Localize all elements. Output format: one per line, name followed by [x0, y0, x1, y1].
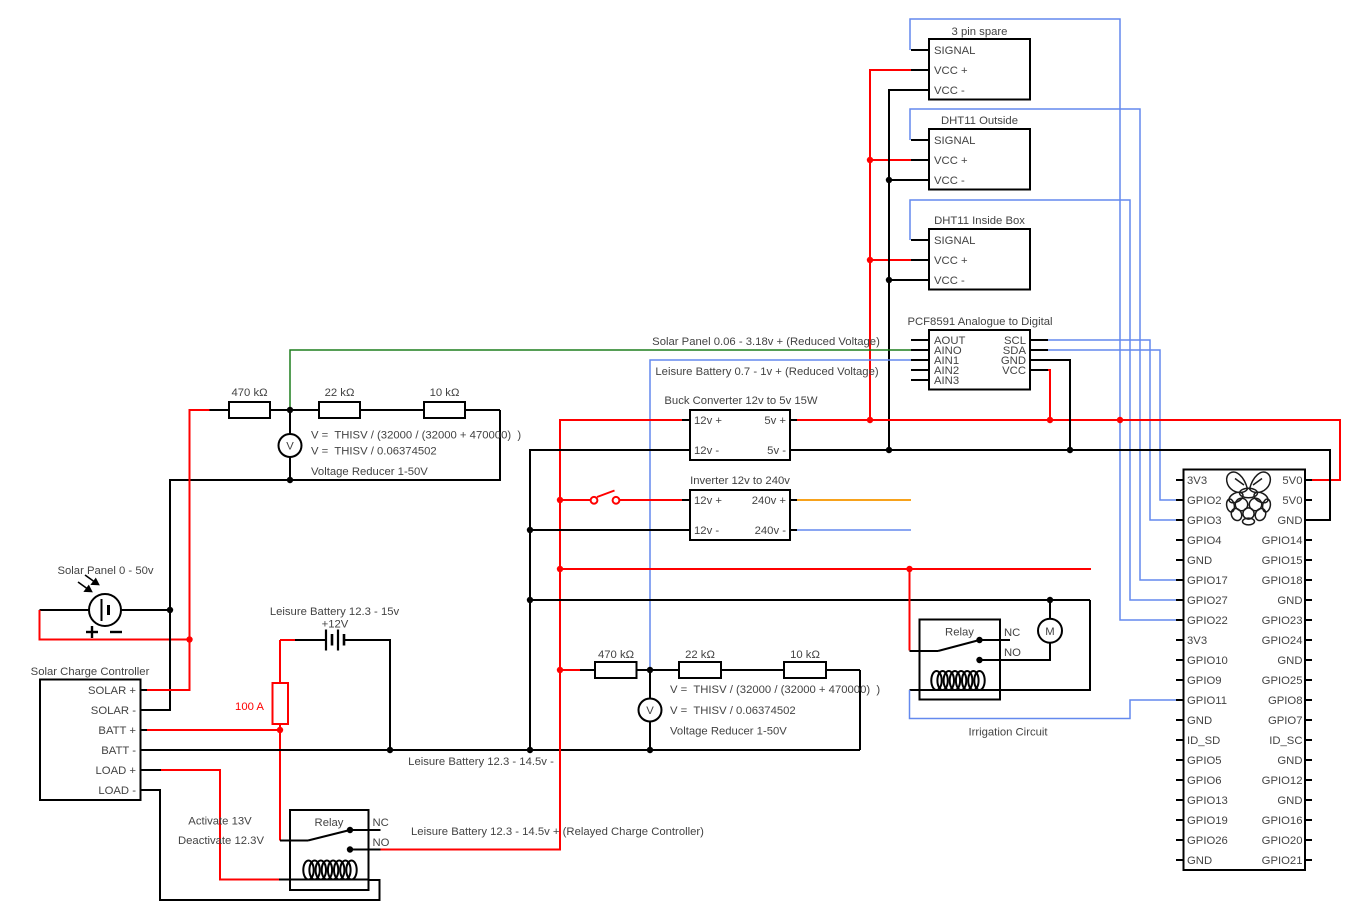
wire black solar panel - vertical to SOLAR- and voltage reducer: [147, 410, 500, 710]
svg-text:GPIO13: GPIO13: [1187, 795, 1228, 807]
wire red irrigation relay common feed: [909, 569, 911, 651]
svg-text:GND: GND: [1277, 595, 1302, 607]
solar charge controller: [40, 680, 141, 801]
svg-text:12v +: 12v +: [694, 415, 722, 427]
svg-text:BATT -: BATT -: [101, 745, 136, 757]
ADC U1 PCF8591 Analogue to Digital: [929, 330, 1030, 390]
svg-text:240v -: 240v -: [755, 525, 787, 537]
svg-text:12v -: 12v -: [694, 525, 719, 537]
pin GPIO23 (right 8) of Raspberry Pi: [1305, 619, 1312, 621]
svg-text:V: V: [286, 440, 294, 452]
relay K2 irrigation relay box: [920, 620, 1001, 700]
junction red 5v rail at sensor rail: [867, 417, 873, 423]
svg-text:22 kΩ: 22 kΩ: [685, 649, 715, 661]
svg-text:5v -: 5v -: [767, 445, 786, 457]
svg-text:VCC +: VCC +: [934, 65, 968, 77]
svg-text:Solar Panel 0.06 - 3.18v + (Re: Solar Panel 0.06 - 3.18v + (Reduced Volt…: [652, 336, 880, 348]
svg-text:GPIO23: GPIO23: [1262, 615, 1303, 627]
svg-text:Inverter 12v to 240v: Inverter 12v to 240v: [690, 475, 790, 487]
wire black LOAD+ lead: [147, 769, 161, 771]
junction black GND rail at PCF GND: [1067, 447, 1073, 453]
svg-text:GPIO16: GPIO16: [1262, 815, 1303, 827]
svg-text:GPIO20: GPIO20: [1262, 835, 1303, 847]
relay K1 NC contact: [347, 827, 353, 833]
wire blue Leisure Battery reduced voltage to AIN1: [650, 360, 911, 670]
pin 12v+ of inverter: [682, 499, 690, 501]
junction red VCC+ DHT11 Outside: [867, 157, 873, 163]
pin 5V0 (right 2) of Raspberry Pi: [1305, 499, 1312, 501]
junction black VCC- DHT11 Inside: [886, 277, 892, 283]
relay K2 coil: [931, 671, 941, 690]
svg-text:470 kΩ: 470 kΩ: [231, 387, 267, 399]
wire red fuse junction down to charge relay common: [279, 730, 281, 841]
wire red 5v+ rail to Pi 5V0: [797, 420, 1340, 480]
relay K1 NO contact: [347, 846, 353, 852]
wire blue PCF8591 SCL to GPIO3: [1048, 340, 1176, 520]
svg-text:GND: GND: [1277, 515, 1302, 527]
junction black reducer 2 ground at BATT- rail: [647, 747, 653, 753]
pin VCC- of DHT11 Inside Box: [911, 279, 929, 281]
pin ID_SD (left 14) of Raspberry Pi: [1176, 739, 1184, 741]
svg-text:DHT11 Outside: DHT11 Outside: [941, 115, 1018, 127]
buck converter 12v to 5v: [690, 410, 790, 460]
voltmeter V1: [279, 434, 302, 457]
svg-text:22 kΩ: 22 kΩ: [325, 387, 355, 399]
svg-text:V = THISV / 0.06374502: V = THISV / 0.06374502: [670, 705, 796, 717]
pin 12v- of inverter: [682, 529, 690, 531]
wire black irrigation relay arm stub: [910, 650, 939, 652]
svg-text:Leisure Battery 12.3 - 15v: Leisure Battery 12.3 - 15v: [270, 606, 400, 618]
pin GPIO22 (left 8) of Raspberry Pi: [1176, 619, 1184, 621]
pin GND of PCF8591: [1030, 359, 1048, 361]
svg-text:5v +: 5v +: [764, 415, 786, 427]
pin VCC+ of DHT11 Inside Box: [911, 259, 929, 261]
svg-text:240v +: 240v +: [752, 495, 787, 507]
svg-text:GND: GND: [1187, 715, 1212, 727]
wire red BATT+ to fuse junction: [147, 729, 280, 731]
svg-text:BATT +: BATT +: [98, 725, 136, 737]
junction red relayed rail at reducer 2 tap: [557, 667, 563, 673]
svg-text:GPIO22: GPIO22: [1187, 615, 1228, 627]
wire black voltage reducer 1 resistor chain: [210, 409, 230, 411]
svg-text:GPIO7: GPIO7: [1268, 715, 1303, 727]
wire black irrigation relay NO to motor: [980, 643, 1051, 660]
connector 3 pin spare: [929, 39, 1030, 100]
pin SOLAR - of solar charge controller: [141, 709, 148, 711]
junction black reducer 2 divider tap: [647, 667, 653, 673]
svg-text:VCC +: VCC +: [934, 155, 968, 167]
Raspberry Pi GPIO header U2: [1184, 470, 1306, 871]
pin GPIO25 (right 11) of Raspberry Pi: [1305, 679, 1312, 681]
pin GPIO11 (left 12) of Raspberry Pi: [1176, 699, 1184, 701]
svg-text:+12V: +12V: [322, 618, 349, 630]
wire red rail to irrigation relay: [560, 568, 1091, 570]
pin 12v- of buck converter: [682, 449, 690, 451]
sensor DHT11 Inside Box: [929, 229, 1030, 290]
pin GPIO26 (left 19) of Raspberry Pi: [1176, 839, 1184, 841]
junction black inverter return: [527, 527, 533, 533]
junction red irrigation relay feed: [906, 566, 912, 572]
svg-text:SIGNAL: SIGNAL: [934, 45, 975, 57]
wire black relay K1 coil baseline: [279, 879, 369, 881]
junction red 5v rail at blue crossing: [1117, 417, 1123, 423]
pin VCC- of DHT11 Outside: [911, 179, 929, 181]
svg-text:SOLAR +: SOLAR +: [88, 685, 136, 697]
junction red solar panel positive: [186, 636, 192, 642]
svg-text:ID_SD: ID_SD: [1187, 735, 1220, 747]
wire red VCC+ stub to DHT11 Inside Box: [870, 259, 911, 261]
svg-text:GND: GND: [1277, 755, 1302, 767]
solar panel polarity marks: [86, 626, 122, 638]
junction red VCC+ DHT11 Inside: [867, 257, 873, 263]
svg-text:GPIO18: GPIO18: [1262, 575, 1303, 587]
relay K1 arm: [308, 830, 350, 841]
svg-text:Leisure Battery 12.3 - 14.5v -: Leisure Battery 12.3 - 14.5v -: [408, 756, 554, 768]
svg-text:470 kΩ: 470 kΩ: [598, 649, 634, 661]
pin GPIO14 (right 4) of Raspberry Pi: [1305, 539, 1312, 541]
junction black reducer 1 divider tap: [287, 407, 293, 413]
wire blue PCF8591 SDA to GPIO2: [1048, 350, 1176, 500]
junction black irrigation NO contact: [976, 657, 982, 663]
wire red LOAD+ to relay coil: [161, 770, 279, 880]
wire red reducer 2 input stub: [560, 669, 580, 671]
svg-text:3V3: 3V3: [1187, 475, 1207, 487]
wire red leisure battery + to fuse: [280, 639, 295, 641]
svg-text:GND: GND: [1277, 655, 1302, 667]
wire black 5v- GND rail to Pi GND: [797, 450, 1330, 520]
pin GPIO20 (right 19) of Raspberry Pi: [1305, 839, 1312, 841]
pin 5V0 (right 1) of Raspberry Pi: [1305, 479, 1312, 481]
pin GND (right 7) of Raspberry Pi: [1305, 599, 1312, 601]
junction black VCC- DHT11 Outside: [886, 177, 892, 183]
relay K1 charge relay box: [290, 810, 369, 890]
wire black GND rail to irrigation circuit: [530, 599, 1090, 601]
switch S1 arm: [597, 491, 615, 498]
pin GPIO2 (left 2) of Raspberry Pi: [1176, 499, 1184, 501]
wire black leisure battery - lead: [344, 640, 390, 750]
svg-text:VCC -: VCC -: [934, 85, 965, 97]
sensor DHT11 Outside: [929, 129, 1030, 190]
wire red solar panel + to charge controller SOLAR+ riser: [40, 610, 190, 640]
wire black VCC- rail vertical from sensors to GND rail: [889, 90, 911, 450]
svg-text:Leisure Battery 0.7 - 1v + (Re: Leisure Battery 0.7 - 1v + (Reduced Volt…: [655, 366, 878, 378]
svg-text:V = THISV / 0.06374502: V = THISV / 0.06374502: [311, 445, 437, 457]
switch S1 right contact: [613, 497, 620, 504]
svg-text:SIGNAL: SIGNAL: [934, 135, 975, 147]
wire red switch S1 to inverter 12v+: [620, 499, 682, 501]
wire black buck converter 12v- return: [530, 450, 682, 750]
svg-text:SIGNAL: SIGNAL: [934, 235, 975, 247]
wire red Leisure Battery + relayed rail (NO to buck converter): [381, 420, 683, 850]
pin GND (right 10) of Raspberry Pi: [1305, 659, 1312, 661]
wire orange inverter 240v+ output: [797, 499, 911, 501]
svg-text:PCF8591 Analogue to Digital: PCF8591 Analogue to Digital: [907, 316, 1052, 328]
junction red relayed rail at horizontal rail: [557, 566, 563, 572]
junction red BATT+ fuse: [277, 727, 283, 733]
fuse F1 100 A: [273, 683, 289, 724]
pin SIGNAL of DHT11 Outside: [911, 139, 929, 141]
resistor R5 22 kOhm: [679, 662, 721, 678]
svg-text:GND: GND: [1187, 555, 1212, 567]
wire black LOAD- to relay coil return: [147, 790, 380, 900]
pin GND (left 20) of Raspberry Pi: [1176, 859, 1184, 861]
wire red PCF8591 VCC feed: [1048, 370, 1050, 420]
svg-text:GPIO11: GPIO11: [1187, 695, 1227, 707]
svg-text:GPIO3: GPIO3: [1187, 515, 1222, 527]
pin SCL of PCF8591: [1030, 339, 1048, 341]
pin SIGNAL of 3 pin spare: [911, 49, 929, 51]
motor M1: [1038, 619, 1062, 643]
Raspberry Pi logo: [1226, 472, 1272, 525]
wire black motor to GND rail: [1049, 600, 1051, 619]
wire red VCC+ rail vertical to sensors: [870, 70, 911, 420]
svg-text:5V0: 5V0: [1282, 475, 1302, 487]
pin LOAD + of solar charge controller: [141, 769, 148, 771]
svg-text:GPIO21: GPIO21: [1262, 855, 1303, 867]
pin GND (right 15) of Raspberry Pi: [1305, 759, 1312, 761]
wire red VCC+ stub to DHT11 Outside: [870, 159, 911, 161]
svg-text:GPIO15: GPIO15: [1262, 555, 1303, 567]
svg-text:GPIO14: GPIO14: [1262, 535, 1303, 547]
svg-text:V = THISV / (32000 / (32000 +: V = THISV / (32000 / (32000 + 470000) ): [311, 429, 521, 441]
wire black irrigation coil return loop: [910, 600, 1091, 690]
wire blue DHT11 Inside SIGNAL to GPIO27: [910, 200, 1176, 600]
pin 3V3 (left 9) of Raspberry Pi: [1176, 639, 1184, 641]
pin GPIO5 (left 15) of Raspberry Pi: [1176, 759, 1184, 761]
pin BATT + of solar charge controller: [141, 729, 148, 731]
svg-text:Leisure Battery 12.3 - 14.5v +: Leisure Battery 12.3 - 14.5v + (Relayed …: [411, 826, 704, 838]
wire black VCC- stub to DHT11 Inside Box: [889, 279, 911, 281]
pin GND (left 5) of Raspberry Pi: [1176, 559, 1184, 561]
pin VCC+ of 3 pin spare: [911, 69, 929, 71]
svg-text:Solar Charge Controller: Solar Charge Controller: [31, 666, 150, 678]
svg-text:VCC +: VCC +: [934, 255, 968, 267]
svg-text:GPIO19: GPIO19: [1187, 815, 1228, 827]
svg-text:NC: NC: [373, 817, 389, 829]
wire black VCC- stub to DHT11 Outside: [889, 179, 911, 181]
svg-text:LOAD +: LOAD +: [96, 765, 137, 777]
svg-text:NO: NO: [1004, 647, 1021, 659]
pin GPIO15 (right 5) of Raspberry Pi: [1305, 559, 1312, 561]
wire relay K1 NO stub: [350, 849, 381, 851]
wire red fuse to BATT+ junction: [279, 724, 281, 730]
pin ID_SC (right 14) of Raspberry Pi: [1305, 739, 1312, 741]
wire blue inverter 240v- output: [797, 529, 911, 531]
wire black voltmeter 1 connections: [289, 410, 291, 434]
pin GPIO6 (left 16) of Raspberry Pi: [1176, 779, 1184, 781]
svg-text:5V0: 5V0: [1282, 495, 1302, 507]
pin GND (left 13) of Raspberry Pi: [1176, 719, 1184, 721]
voltmeter V2: [639, 699, 662, 722]
wire black solar panel negative lead to junction: [121, 609, 170, 611]
svg-text:Irrigation Circuit: Irrigation Circuit: [968, 726, 1048, 738]
pin GPIO16 (right 18) of Raspberry Pi: [1305, 819, 1312, 821]
svg-text:VCC -: VCC -: [934, 175, 965, 187]
junction black solar panel negative: [167, 607, 173, 613]
svg-text:SOLAR -: SOLAR -: [91, 705, 136, 717]
junction black motor at GND rail: [1047, 597, 1053, 603]
pin VCC- of 3 pin spare: [911, 89, 929, 91]
svg-text:V = THISV / (32000 / (32000 +: V = THISV / (32000 / (32000 + 470000) ): [670, 684, 880, 696]
svg-text:NO: NO: [373, 837, 390, 849]
relay K1 coil: [303, 861, 313, 880]
svg-text:NC: NC: [1004, 627, 1020, 639]
pin 240v- of inverter: [790, 529, 797, 531]
pin AINO of PCF8591: [911, 349, 929, 351]
svg-text:Relay: Relay: [945, 626, 974, 638]
svg-text:12v -: 12v -: [694, 445, 719, 457]
svg-text:GPIO6: GPIO6: [1187, 775, 1222, 787]
svg-text:GND: GND: [1187, 855, 1212, 867]
pin GPIO3 (left 3) of Raspberry Pi: [1176, 519, 1184, 521]
pin AIN3 of PCF8591: [911, 379, 929, 381]
switch S1 left contact: [591, 497, 598, 504]
svg-text:GPIO17: GPIO17: [1187, 575, 1228, 587]
resistor R4 470 kOhm: [595, 662, 637, 678]
svg-text:GPIO4: GPIO4: [1187, 535, 1222, 547]
pin GPIO8 (right 12) of Raspberry Pi: [1305, 699, 1312, 701]
svg-text:GPIO27: GPIO27: [1187, 595, 1228, 607]
pin GPIO12 (right 16) of Raspberry Pi: [1305, 779, 1312, 781]
svg-text:Deactivate 12.3V: Deactivate 12.3V: [178, 835, 264, 847]
pin 3V3 (left 1) of Raspberry Pi: [1176, 479, 1184, 481]
pin SDA of PCF8591: [1030, 349, 1048, 351]
svg-text:100 A: 100 A: [235, 701, 264, 713]
svg-text:LOAD -: LOAD -: [98, 785, 136, 797]
wire black irrigation relay NC stub: [980, 639, 1011, 641]
pin GPIO24 (right 9) of Raspberry Pi: [1305, 639, 1312, 641]
pin 5v- of buck converter: [790, 449, 797, 451]
svg-text:Relay: Relay: [315, 817, 344, 829]
svg-text:3V3: 3V3: [1187, 635, 1207, 647]
svg-text:10 kΩ: 10 kΩ: [790, 649, 820, 661]
junction red relayed rail at switch tap: [557, 497, 563, 503]
svg-text:Solar Panel 0 - 50v: Solar Panel 0 - 50v: [57, 565, 153, 577]
pin BATT - of solar charge controller: [141, 749, 148, 751]
svg-text:AIN3: AIN3: [934, 375, 959, 387]
pin GND (right 17) of Raspberry Pi: [1305, 799, 1312, 801]
junction black battery negative at BATT- rail: [387, 747, 393, 753]
pin GPIO19 (left 18) of Raspberry Pi: [1176, 819, 1184, 821]
pin GPIO13 (left 17) of Raspberry Pi: [1176, 799, 1184, 801]
wire black solar panel positive lead: [40, 609, 90, 611]
wire blue irrigation relay coil to GPIO11: [910, 690, 1177, 719]
pin AIN1 of PCF8591: [911, 359, 929, 361]
pin GPIO17 (left 6) of Raspberry Pi: [1176, 579, 1184, 581]
pin 12v+ of buck converter: [682, 419, 690, 421]
svg-text:GPIO26: GPIO26: [1187, 835, 1228, 847]
junction red 5v rail at PCF VCC: [1047, 417, 1053, 423]
pin GPIO27 (left 7) of Raspberry Pi: [1176, 599, 1184, 601]
irrigation relay arm: [938, 640, 980, 651]
pin GPIO10 (left 10) of Raspberry Pi: [1176, 659, 1184, 661]
wire red switch S1 feed: [560, 499, 590, 501]
pin AIN2 of PCF8591: [911, 369, 929, 371]
pin SOLAR + of solar charge controller: [141, 689, 148, 691]
wire black PCF8591 GND feed: [1048, 360, 1070, 450]
junction black buck return at BATT- rail: [527, 747, 533, 753]
pin GPIO7 (right 13) of Raspberry Pi: [1305, 719, 1312, 721]
svg-text:GPIO2: GPIO2: [1187, 495, 1222, 507]
junction black irrigation NC contact: [976, 637, 982, 643]
pin SIGNAL of DHT11 Inside Box: [911, 239, 929, 241]
solar panel light arrows: [78, 575, 99, 592]
wire black reducer 2 right side down to BATT- rail: [859, 670, 861, 750]
svg-text:Voltage Reducer 1-50V: Voltage Reducer 1-50V: [670, 725, 787, 737]
wire relay K1 NC stub: [350, 829, 381, 831]
wire black BATT- rail (Leisure Battery 12.3 - 14.5v -): [147, 749, 860, 751]
pin 240v+ of inverter: [790, 499, 797, 501]
wire black voltmeter 2 connections: [649, 670, 651, 699]
svg-text:GPIO8: GPIO8: [1268, 695, 1303, 707]
svg-text:ID_SC: ID_SC: [1269, 735, 1302, 747]
junction black GND rail start: [527, 597, 533, 603]
svg-text:GPIO25: GPIO25: [1262, 675, 1303, 687]
svg-text:10 kΩ: 10 kΩ: [430, 387, 460, 399]
pin AOUT of PCF8591: [911, 339, 929, 341]
svg-text:V: V: [646, 705, 654, 717]
svg-text:M: M: [1045, 626, 1054, 638]
svg-text:GPIO24: GPIO24: [1262, 635, 1303, 647]
wire blue 3 pin spare SIGNAL to GPIO22: [910, 19, 1176, 620]
pin 5v+ of buck converter: [790, 419, 797, 421]
junction black reducer 1 ground tap: [287, 477, 293, 483]
wire red SOLAR+ riser to voltage reducer 1: [147, 410, 210, 690]
svg-text:VCC: VCC: [1002, 365, 1026, 377]
resistor R2 22 kOhm: [319, 402, 360, 418]
pin GPIO9 (left 11) of Raspberry Pi: [1176, 679, 1184, 681]
svg-text:GPIO5: GPIO5: [1187, 755, 1222, 767]
svg-text:12v +: 12v +: [694, 495, 722, 507]
svg-text:GND: GND: [1277, 795, 1302, 807]
pin LOAD - of solar charge controller: [141, 789, 148, 791]
svg-text:DHT11 Inside Box: DHT11 Inside Box: [934, 215, 1025, 227]
svg-text:3 pin spare: 3 pin spare: [952, 26, 1008, 38]
wire black voltage reducer 2 resistor chain: [580, 669, 595, 671]
svg-text:Activate 13V: Activate 13V: [188, 815, 252, 827]
svg-text:Buck Converter 12v to 5v 15W: Buck Converter 12v to 5v 15W: [664, 395, 818, 407]
pin GND (right 3) of Raspberry Pi: [1305, 519, 1312, 521]
battery leisure 12V symbol: [326, 630, 344, 651]
resistor R1 470 kOhm: [229, 402, 270, 418]
svg-text:GPIO10: GPIO10: [1187, 655, 1228, 667]
svg-text:Voltage Reducer 1-50V: Voltage Reducer 1-50V: [311, 466, 428, 478]
pin GPIO18 (right 6) of Raspberry Pi: [1305, 579, 1312, 581]
wire black leisure battery + lead: [295, 639, 326, 641]
inverter 12v to 240v: [690, 490, 790, 540]
svg-text:VCC -: VCC -: [934, 275, 965, 287]
solar panel source symbol: [89, 594, 121, 626]
pin VCC+ of DHT11 Outside: [911, 159, 929, 161]
resistor R6 10 kOhm: [784, 662, 826, 678]
resistor R3 10 kOhm: [424, 402, 465, 418]
wire green Solar Panel reduced voltage to AINO: [290, 350, 911, 410]
wire black inverter 12v- return: [530, 529, 682, 531]
relay K1 arm stub: [280, 840, 308, 842]
pin GPIO4 (left 4) of Raspberry Pi: [1176, 539, 1184, 541]
junction black GND rail at sensor return: [886, 447, 892, 453]
pin GPIO21 (right 20) of Raspberry Pi: [1305, 859, 1312, 861]
svg-text:GPIO9: GPIO9: [1187, 675, 1222, 687]
wire blue DHT11 Outside SIGNAL to GPIO17: [910, 109, 1176, 580]
svg-text:GPIO12: GPIO12: [1262, 775, 1303, 787]
pin VCC of PCF8591: [1030, 369, 1048, 371]
